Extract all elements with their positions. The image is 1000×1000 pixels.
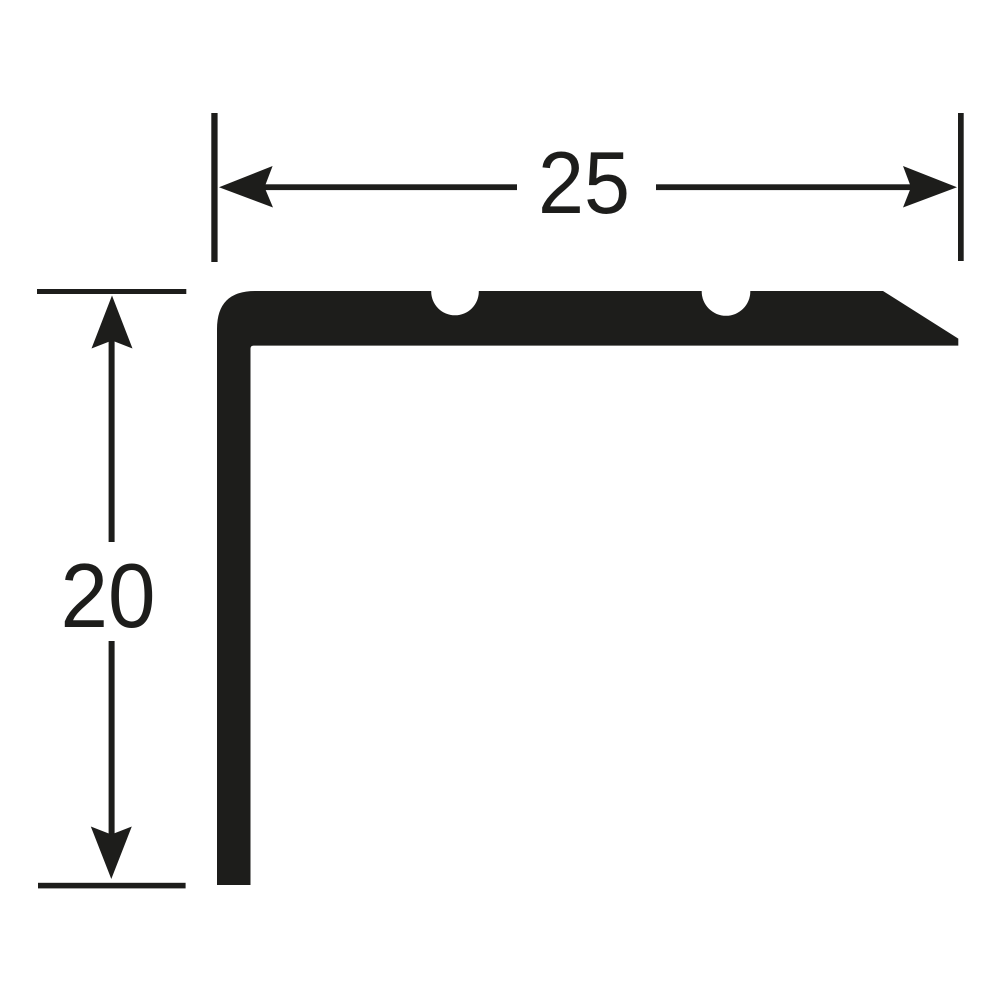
svg-text:25: 25 <box>538 133 630 232</box>
svg-text:20: 20 <box>61 546 156 647</box>
arrowhead up <box>92 296 133 349</box>
height dimension line upper segment <box>109 340 115 542</box>
extension line top (height dim) <box>37 289 186 294</box>
width dimension line left segment <box>262 184 517 190</box>
screw hole notch 2 <box>702 267 751 316</box>
arrowhead down <box>91 827 132 880</box>
extension line bottom (height dim) <box>38 883 186 889</box>
extension line left (width dim) <box>211 113 217 262</box>
arrowhead right <box>903 166 957 208</box>
arrowhead left <box>219 166 273 208</box>
extension line right (width dim) <box>958 113 964 261</box>
height dimension line lower segment <box>109 641 115 835</box>
L-profile body <box>217 291 958 885</box>
screw hole notch 1 <box>431 268 479 316</box>
width dimension line right segment <box>656 184 912 190</box>
